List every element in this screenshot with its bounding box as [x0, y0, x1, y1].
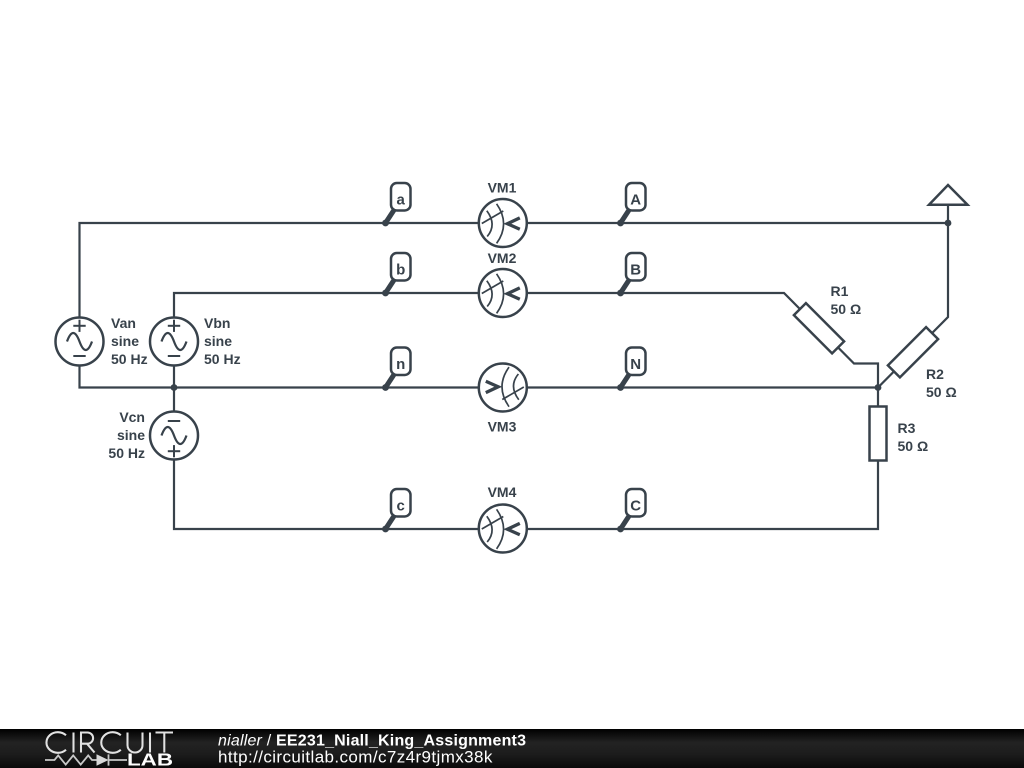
footer bar — [0, 729, 1024, 768]
voltage source V2 Vbn — [150, 318, 198, 366]
svg-text:sine: sine — [204, 333, 232, 349]
voltage source V1 Van — [56, 318, 104, 366]
wire row n: below Van to node N junction — [80, 366, 879, 388]
svg-text:N: N — [630, 356, 641, 373]
node flag n — [386, 348, 411, 388]
footer logo CIRCUIT — [46, 732, 173, 753]
svg-text:Vbn: Vbn — [204, 315, 230, 331]
svg-text:VM1: VM1 — [488, 180, 517, 196]
voltmeter VM1 — [479, 199, 527, 247]
node flag B — [621, 253, 646, 293]
svg-text:50 Hz: 50 Hz — [204, 351, 241, 367]
junction dot antenna — [945, 220, 952, 227]
footer logo resistor-diode glyph — [45, 754, 127, 765]
wire right vertical: antenna to R2 diagonal — [878, 205, 948, 388]
wire row c: Vcn bottom along to R3 bottom — [174, 388, 878, 530]
svg-text:50 Ω: 50 Ω — [926, 384, 957, 400]
node flag A — [621, 183, 646, 223]
svg-text:50 Hz: 50 Hz — [111, 351, 148, 367]
svg-text:LAB: LAB — [127, 750, 173, 768]
resistor R3 — [870, 407, 887, 461]
antenna symbol (top right) — [929, 185, 968, 205]
resistor R2 — [888, 327, 938, 377]
svg-text:b: b — [396, 262, 405, 279]
svg-text:R3: R3 — [898, 420, 916, 436]
svg-text:R2: R2 — [926, 366, 944, 382]
svg-text:VM4: VM4 — [488, 484, 517, 500]
resistor R1 — [794, 303, 844, 353]
wire row b: Vbn top then to R1 diagonal — [174, 293, 878, 388]
svg-text:c: c — [397, 498, 405, 515]
node flag N — [621, 348, 646, 388]
voltage source V3 Vcn (flipped) — [150, 412, 198, 460]
wire row a: Van top to antenna junction — [80, 223, 949, 318]
junction dot N — [875, 384, 882, 391]
node flag a — [386, 183, 411, 223]
svg-text:C: C — [630, 498, 641, 515]
voltmeter VM3 (rotated 180) — [479, 364, 527, 412]
svg-text:50 Ω: 50 Ω — [831, 301, 862, 317]
svg-text:R1: R1 — [831, 283, 849, 299]
svg-text:Van: Van — [111, 315, 136, 331]
svg-text:sine: sine — [117, 427, 145, 443]
svg-text:VM2: VM2 — [488, 250, 517, 266]
junction dot sources — [171, 384, 178, 391]
wire Vbn bottom to junction — [173, 366, 175, 412]
svg-text:A: A — [630, 192, 641, 209]
node flag C — [621, 489, 646, 529]
node flag c — [386, 489, 411, 529]
svg-text:50 Hz: 50 Hz — [108, 445, 145, 461]
svg-text:VM3: VM3 — [488, 419, 517, 435]
voltmeter VM4 — [479, 505, 527, 553]
svg-text:sine: sine — [111, 333, 139, 349]
svg-text:http://circuitlab.com/c7z4r9tj: http://circuitlab.com/c7z4r9tjmx38k — [218, 748, 493, 767]
voltmeter VM2 — [479, 269, 527, 317]
node flag b — [386, 253, 411, 293]
svg-text:B: B — [630, 262, 641, 279]
svg-text:n: n — [396, 356, 405, 373]
svg-text:50 Ω: 50 Ω — [898, 438, 929, 454]
svg-text:a: a — [397, 192, 406, 209]
svg-text:Vcn: Vcn — [119, 409, 145, 425]
